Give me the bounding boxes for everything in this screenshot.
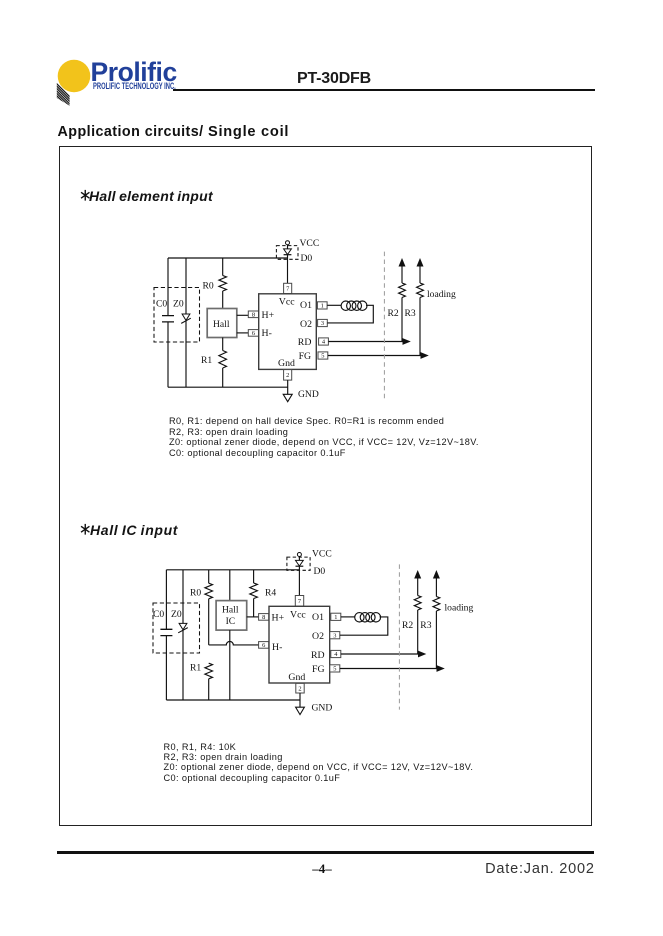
wire FG output with arrow [340,665,445,672]
pin 6 H- [248,330,258,337]
svg-text:Z0: Z0 [171,609,182,620]
svg-text:R2: R2 [402,620,413,631]
dashed load boundary line [383,252,385,400]
svg-text:O2: O2 [312,631,324,642]
wire D0 to pin 7 [298,566,300,595]
svg-text:8: 8 [262,614,265,621]
pin 8 H+ [259,614,269,621]
svg-text:O1: O1 [300,300,312,311]
document title PT-30DFB [297,70,371,88]
pin 3 O2 [330,632,340,640]
circuit 1 hall element input [150,235,472,407]
svg-text:Gnd: Gnd [278,358,295,369]
wire D0 to pin 7 [287,255,289,284]
pin 4 RD [319,338,329,346]
wire hall to pin 8 [237,314,249,316]
hall IC box [216,601,247,631]
svg-text:1: 1 [334,614,337,621]
circuit 2 hall IC input [150,545,480,720]
pin 2 Gnd [284,370,292,381]
svg-text:RD: RD [298,337,312,348]
capacitor C0 [156,299,174,322]
outer frame box [59,146,593,826]
capacitor C0 [153,609,172,636]
wire RD output with arrow [341,651,427,658]
VCC terminal [297,548,331,559]
svg-text:R4: R4 [265,588,276,599]
svg-text:6: 6 [262,642,265,649]
svg-text:C0: C0 [156,299,167,310]
svg-text:2: 2 [298,685,301,692]
wire left rail circuit 2 [165,570,167,700]
pin 5 FG [318,352,328,360]
svg-text:8: 8 [252,311,255,318]
svg-text:R2: R2 [388,308,399,319]
svg-text:H+: H+ [262,310,275,321]
resistor R0 [190,570,213,645]
svg-text:FG: FG [299,351,312,362]
svg-text:3: 3 [333,632,336,639]
resistor R2 loading [388,258,406,342]
prolific logo [48,50,188,112]
dashed option box around C0 Z0 [154,288,200,343]
svg-text:GND: GND [298,389,319,400]
pin 1 O1 [317,302,327,310]
footer rule [57,851,594,854]
svg-text:VCC: VCC [300,238,320,249]
prolific wordmark [91,59,177,86]
svg-text:Hall: Hall [222,605,239,616]
coil single coil motor winding [340,613,388,636]
notes circuit 1 [169,416,479,458]
wire hall IC to ground rail [229,630,231,700]
wire bottom ground rail circuit 1 [168,386,288,388]
pin 2 Gnd [296,683,304,693]
zener diode Z0 [171,570,188,700]
pin 6 H- [259,642,269,649]
svg-text:Vcc: Vcc [279,297,295,308]
svg-text:IC: IC [226,616,236,627]
svg-text:H-: H- [262,328,272,339]
dashed load boundary line [398,564,400,709]
IC U1 box [259,294,317,370]
page number [292,861,352,877]
svg-text:RD: RD [311,650,325,661]
svg-text:VCC: VCC [312,548,332,559]
svg-text:loading: loading [427,289,456,300]
svg-text:Vcc: Vcc [290,610,306,621]
pin 3 O2 [318,319,328,327]
wire top VCC rail circuit 2 [166,569,299,571]
notes circuit 2 [164,742,474,784]
svg-text:R0: R0 [190,588,201,599]
heading hall element input [79,188,92,203]
wire VCC to hall IC [229,570,231,601]
ground symbol [296,702,333,714]
svg-text:2: 2 [286,372,289,379]
svg-text:Z0: Z0 [173,299,184,310]
zener diode D0 [287,557,326,578]
svg-text:Gnd: Gnd [288,672,305,683]
svg-text:H+: H+ [272,613,285,624]
prolific technology inc tagline [93,81,176,91]
zener diode Z0 [173,258,191,387]
svg-text:D0: D0 [314,566,326,577]
ground symbol [283,389,319,402]
svg-text:FG: FG [312,664,325,675]
wire pin 2 to ground [287,380,289,394]
svg-text:GND: GND [312,702,333,713]
IC U2 box [269,606,330,683]
wire FG output with arrow [328,352,429,359]
VCC terminal [286,238,320,249]
IC U2 pin name labels [272,610,325,683]
wire bottom ground rail circuit 2 [166,699,300,701]
wire H- reference with hop over hall IC ground [209,641,259,645]
hall element box [207,309,237,338]
date [485,861,595,877]
svg-text:loading: loading [445,602,474,613]
heading hall IC input [79,522,92,537]
pin 8 H+ [248,311,258,318]
svg-text:O2: O2 [300,319,312,330]
wire left rail circuit 1 [167,258,169,387]
svg-text:R3: R3 [405,308,416,319]
resistor R3 loading [405,258,424,356]
pin 4 RD [331,650,341,658]
svg-text:R1: R1 [201,355,212,366]
svg-text:3: 3 [321,320,324,327]
svg-text:D0: D0 [301,253,313,264]
svg-text:5: 5 [321,353,324,360]
pin 5 FG [330,665,340,673]
svg-text:Hall: Hall [213,319,230,330]
wire hall to pin 6 [237,332,249,334]
svg-text:O1: O1 [312,612,324,623]
wire pin 2 to ground [299,693,301,707]
resistor R4 [250,570,277,617]
section heading [58,124,290,140]
wire hall IC output to pin 8 [247,616,259,618]
svg-text:R0: R0 [203,281,214,292]
IC U1 pin name labels [262,297,313,370]
svg-text:R3: R3 [420,620,431,631]
resistor R2 loading [402,570,421,654]
resistor R1 [190,662,213,700]
coil single coil motor winding [327,301,373,323]
pin 1 O1 [331,613,341,621]
header rule [173,89,595,91]
wire top VCC rail circuit 1 [168,257,288,259]
resistor R1 [201,338,227,388]
resistor R3 loading [420,570,440,669]
svg-text:6: 6 [252,330,255,337]
resistor R0 [203,258,227,309]
pin 7 Vcc [295,596,303,607]
svg-text:H-: H- [272,642,282,653]
wire RD output with arrow [328,338,410,345]
zener diode D0 [276,245,312,264]
svg-text:C0: C0 [153,609,164,620]
dashed option box around C0 Z0 [153,603,200,653]
svg-text:5: 5 [333,666,336,673]
pin 7 Vcc [284,283,292,293]
svg-text:R1: R1 [190,662,201,673]
svg-text:1: 1 [321,303,324,310]
